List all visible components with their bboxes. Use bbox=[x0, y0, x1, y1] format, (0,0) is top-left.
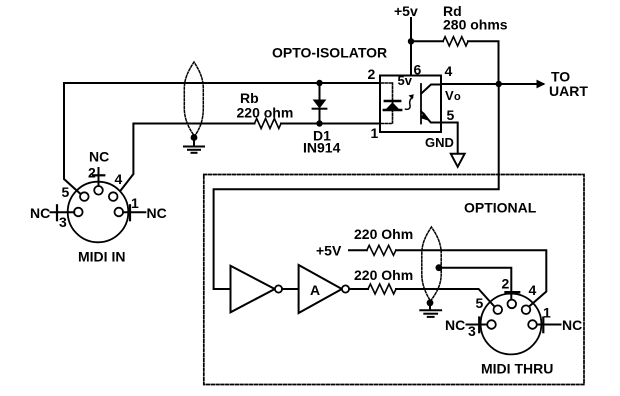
pin 2 (IN) bbox=[94, 186, 103, 195]
svg-text:3: 3 bbox=[468, 323, 476, 339]
diode D1 IN914 bbox=[313, 83, 327, 124]
arrowhead TO UART bbox=[537, 80, 546, 89]
svg-text:NC: NC bbox=[89, 149, 109, 165]
wire: THRU pin3 NC stub bbox=[467, 324, 488, 326]
svg-text:2: 2 bbox=[88, 165, 96, 181]
pin 2 (THRU) bbox=[508, 300, 517, 309]
svg-text:o: o bbox=[454, 91, 461, 103]
NC tick pin2 bbox=[93, 174, 104, 176]
wire: output node down into optional section to inverter input bbox=[214, 84, 499, 289]
pin 4 (THRU) bbox=[522, 305, 531, 314]
resistor Rb zigzag bbox=[255, 119, 282, 129]
NC tick THRU pin1 bbox=[542, 318, 544, 333]
MIDI IN connector circle bbox=[68, 182, 129, 243]
pin 3 (IN) bbox=[74, 208, 83, 217]
svg-text:220 Ohm: 220 Ohm bbox=[354, 267, 413, 283]
node: output junction bbox=[496, 81, 502, 87]
wire: opto pin 6 to +5v node bbox=[410, 41, 412, 75]
svg-text:NC: NC bbox=[445, 317, 465, 333]
NC tick pin1 bbox=[129, 205, 131, 220]
pin 5 (THRU) bbox=[494, 305, 503, 314]
svg-text:GND: GND bbox=[425, 135, 454, 150]
svg-text:MIDI IN: MIDI IN bbox=[78, 249, 125, 265]
wire: Rb to opto pin1 bbox=[281, 123, 380, 125]
svg-text:4: 4 bbox=[445, 63, 453, 79]
wire: MIDI IN pin5 to top rail into opto pin 2 bbox=[64, 83, 380, 194]
cable shield ellipse (MIDI THRU) bbox=[422, 227, 441, 301]
svg-text:220 ohm: 220 ohm bbox=[237, 105, 294, 121]
inverter 1 bubble bbox=[275, 285, 282, 292]
svg-text:2: 2 bbox=[368, 66, 376, 82]
node: D1 anode junction on top rail bbox=[316, 80, 322, 86]
cable shield ellipse (MIDI IN) bbox=[184, 62, 203, 136]
svg-text:A: A bbox=[310, 282, 320, 298]
svg-text:+5V: +5V bbox=[316, 243, 342, 259]
dashed internal LED path bbox=[382, 83, 393, 124]
wire: MIDI IN pin4 up and right rail through Rb into opto pin 1 bbox=[121, 124, 255, 191]
svg-text:OPTIONAL: OPTIONAL bbox=[464, 200, 537, 216]
wire: inverter2 out to 220 ohm bbox=[349, 288, 368, 290]
svg-text:1: 1 bbox=[371, 125, 379, 141]
svg-text:NC: NC bbox=[562, 317, 582, 333]
wire: inverter1 to inverter2 bbox=[282, 288, 297, 290]
svg-text:1: 1 bbox=[543, 305, 551, 321]
junction dot THRU shield to ground bbox=[427, 299, 434, 306]
wire: pin3 NC stub bbox=[51, 211, 75, 213]
pin 5 (IN) bbox=[80, 192, 89, 201]
ground symbol (THRU shield) bbox=[420, 303, 441, 317]
op-amp U1: opto-isolator box bbox=[380, 76, 441, 133]
svg-text:5: 5 bbox=[447, 107, 455, 123]
node: +5v / Rd junction bbox=[408, 38, 414, 44]
wire: opto pin 4 output to UART arrow bbox=[441, 83, 543, 85]
ground triangle (signal gnd) bbox=[451, 154, 465, 167]
wire: resistor to THRU pin 5 bbox=[396, 289, 494, 306]
tick at THRU pin 2 bbox=[506, 291, 519, 294]
phototransistor inside opto bbox=[421, 84, 440, 124]
svg-text:NC: NC bbox=[30, 205, 50, 221]
LED inside opto bbox=[384, 101, 401, 110]
wire: opto pin 5 to gnd triangle bbox=[441, 123, 458, 153]
svg-text:3: 3 bbox=[59, 214, 67, 230]
svg-text:V: V bbox=[445, 88, 454, 103]
resistor 220 Ohm (signal) zigzag bbox=[368, 284, 396, 294]
MIDI THRU connector circle bbox=[481, 294, 542, 355]
svg-text:280 ohms: 280 ohms bbox=[443, 17, 508, 33]
NC tick pin3 bbox=[56, 205, 58, 220]
junction dot shield to ground bbox=[191, 134, 198, 141]
svg-text:5: 5 bbox=[62, 184, 70, 200]
inverter 1 bbox=[231, 266, 275, 313]
svg-text:OPTO-ISOLATOR: OPTO-ISOLATOR bbox=[272, 45, 387, 61]
svg-text:4: 4 bbox=[529, 282, 537, 298]
wire: Rd to output node bbox=[468, 41, 499, 83]
pin 3 (THRU) bbox=[487, 320, 496, 329]
svg-text:5: 5 bbox=[476, 295, 484, 311]
svg-text:MIDI THRU: MIDI THRU bbox=[481, 361, 553, 377]
wire: THRU pin1 NC stub bbox=[537, 324, 561, 326]
svg-text:5v: 5v bbox=[398, 73, 413, 88]
svg-text:1: 1 bbox=[131, 195, 139, 211]
svg-text:+5v: +5v bbox=[394, 3, 418, 19]
wire: pin2 NC stub bbox=[98, 168, 100, 186]
svg-text:4: 4 bbox=[115, 171, 123, 187]
resistor 220 Ohm (pullup) zigzag bbox=[367, 245, 396, 255]
node: shield junction to pin2 wire bbox=[436, 264, 443, 271]
svg-text:NC: NC bbox=[147, 205, 167, 221]
NC tick THRU pin3 bbox=[478, 318, 480, 333]
resistor Rd zigzag bbox=[443, 37, 468, 46]
pin 1 (THRU) bbox=[528, 320, 537, 329]
optional section dashed border bbox=[204, 175, 584, 385]
light arrow inside opto bbox=[406, 94, 414, 109]
wire: node to Rd bbox=[411, 40, 443, 42]
wire: +5v stub bbox=[410, 18, 412, 41]
svg-text:IN914: IN914 bbox=[303, 140, 341, 156]
ground symbol (IN shield) bbox=[184, 138, 204, 153]
inverter 2 bubble bbox=[342, 285, 349, 292]
svg-text:6: 6 bbox=[414, 62, 422, 78]
pin 1 (IN) bbox=[115, 208, 124, 217]
wire: shield junction to THRU pin 2 bbox=[439, 268, 511, 299]
svg-text:220 Ohm: 220 Ohm bbox=[354, 226, 413, 242]
wire: pullup to THRU pin 4 bbox=[396, 250, 546, 306]
svg-text:UART: UART bbox=[549, 83, 588, 99]
inverter 2 (A) bbox=[299, 265, 342, 313]
svg-text:2: 2 bbox=[502, 276, 510, 292]
wire: pin1 NC stub bbox=[123, 211, 145, 213]
node: D1 cathode junction on bottom rail bbox=[316, 120, 322, 126]
wire: +5V to 220 ohm pullup bbox=[349, 249, 367, 251]
pin 4 (IN) bbox=[109, 192, 118, 201]
